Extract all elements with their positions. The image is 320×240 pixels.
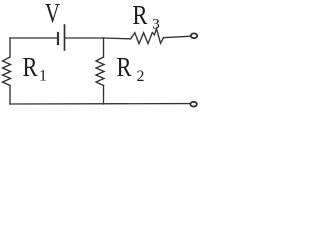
wire top-left horizontal xyxy=(10,37,57,39)
wire R2 vertical bottom xyxy=(103,86,105,105)
battery V long bar (positive) xyxy=(64,25,66,50)
terminal bottom (open circle) xyxy=(190,102,196,107)
svg-text:R: R xyxy=(23,52,38,82)
wire node A to R3 xyxy=(104,37,131,40)
svg-text:R: R xyxy=(133,0,148,30)
resistor R2 zigzag xyxy=(96,57,104,86)
terminal top (open circle) xyxy=(191,33,197,38)
svg-text:3: 3 xyxy=(152,17,160,33)
wire R3 to top terminal xyxy=(164,36,191,38)
svg-text:1: 1 xyxy=(39,68,47,85)
wire bottom horizontal xyxy=(10,103,190,105)
wire left vertical bottom xyxy=(9,86,11,105)
node A junction: R2 vertical top xyxy=(103,38,105,57)
svg-text:R: R xyxy=(117,52,132,82)
svg-text:V: V xyxy=(45,0,60,28)
svg-text:2: 2 xyxy=(137,68,145,85)
resistor R1 zigzag xyxy=(3,57,11,86)
battery V short bar (negative) xyxy=(57,33,59,44)
wire battery to node A xyxy=(66,37,104,39)
wire left vertical top (to R1) xyxy=(9,38,11,57)
resistor R3 zigzag xyxy=(131,29,164,44)
